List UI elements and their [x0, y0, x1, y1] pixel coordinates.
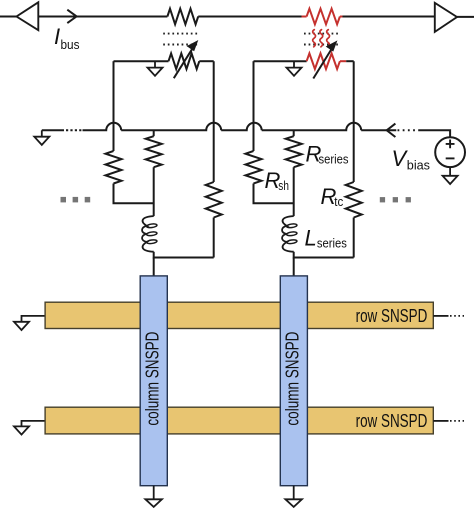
- ground (below V1): [443, 167, 458, 184]
- svg-text:L: L: [305, 225, 317, 250]
- ground (row 2): [14, 426, 29, 434]
- wire left branch (cell 1) through hop: [113, 61, 115, 151]
- resistor R2 (bus resistor, cell 2, heated): [302, 9, 343, 25]
- arrow of variable resistor RT2: [313, 41, 336, 78]
- wire middle branch top (cell 2): [293, 130, 295, 136]
- variable resistor RT2 (thermistor, cell 2, heated): [307, 53, 340, 69]
- amplifier U1 (left buffer): [17, 2, 39, 30]
- row SNSPD 2 bar: [45, 407, 433, 434]
- resistor R6 (R_sh, cell 2): [246, 151, 262, 184]
- wire row 1 right lead: [433, 315, 464, 317]
- wire bias line left solid: [42, 129, 64, 131]
- label column SNSPD 2: [282, 332, 303, 426]
- plus sign of V1: [446, 140, 455, 149]
- wire inductor to node (cell 1): [154, 252, 214, 258]
- wire node to column 2: [293, 258, 295, 277]
- wire heater loop top-right (cell 1): [199, 60, 213, 62]
- heat squiggle 1 (cell 2): [313, 30, 316, 47]
- current direction arrow toward bias line: [387, 124, 396, 137]
- heat squiggle 2 (cell 2): [320, 30, 323, 47]
- ground (row 1): [14, 322, 29, 330]
- heat squiggle 3 (cell 2): [327, 30, 330, 47]
- wire bus output stub: [457, 16, 474, 18]
- wire bus segment B: [198, 16, 301, 18]
- svg-text:sh: sh: [278, 179, 289, 193]
- ground (column 1): [145, 499, 162, 507]
- wire right branch (cell 2) through hop: [353, 61, 355, 182]
- ground (heater, cell 2): [287, 61, 302, 76]
- wire bias line segment, hop over node at 254.2: [221, 123, 262, 131]
- svg-text:I: I: [54, 24, 60, 49]
- ellipsis (more cells, left): [61, 197, 91, 203]
- wire bias line segment, hop over node at 353.7: [262, 123, 362, 130]
- wire column 2 bottom stub: [293, 486, 295, 500]
- column SNSPD 1 bar: [140, 276, 167, 486]
- wire middle branch (cell 1): [153, 167, 155, 216]
- resistor R3 (shunt, cell 1): [106, 151, 122, 184]
- wire bus segment A: [38, 16, 167, 18]
- resistor R5 (thermally-coupled, cell 1): [206, 182, 222, 218]
- column SNSPD 2 bar: [280, 276, 307, 486]
- svg-text:series: series: [317, 236, 347, 250]
- wire bus segment C: [343, 16, 435, 18]
- wire heater loop top-left (cell 2): [254, 60, 307, 62]
- wire row 2 left lead: [22, 421, 46, 427]
- wire node to column 1: [153, 258, 155, 277]
- current direction arrow on bus: [67, 10, 76, 23]
- svg-text:row SNSPD: row SNSPD: [356, 410, 428, 431]
- svg-text:column SNSPD: column SNSPD: [282, 332, 303, 426]
- svg-text:row SNSPD: row SNSPD: [356, 305, 428, 326]
- label R_series: [306, 141, 349, 166]
- svg-text:series: series: [319, 152, 349, 166]
- wire bias line right solid: [361, 129, 396, 131]
- arrow of variable resistor RT1: [174, 41, 198, 78]
- label I_bus: [54, 24, 80, 52]
- wire column 1 bottom stub: [153, 486, 155, 500]
- wire bias line segment, hop over node at 213.7: [121, 123, 221, 130]
- svg-text:bias: bias: [407, 159, 430, 173]
- ground (bias line, left end): [34, 130, 49, 145]
- svg-text:bus: bus: [61, 38, 80, 52]
- wire bias line to source: [418, 130, 450, 137]
- resistor R1 (bus resistor, cell 1): [167, 9, 198, 25]
- amplifier U2 (right buffer): [435, 3, 457, 32]
- voltage source V1 circle: [435, 137, 465, 167]
- wire middle branch top (cell 1): [153, 130, 155, 136]
- wire heater loop top-right (cell 2): [340, 60, 354, 62]
- wire left branch (cell 2) through hop: [253, 61, 255, 151]
- inductor L2 (L_series, cell 2): [282, 216, 297, 252]
- resistor R7 (R_series, cell 2): [286, 136, 302, 167]
- variable resistor RT1 (thermistor, cell 1): [169, 53, 200, 69]
- wire left branch bottom (cell 1): [114, 184, 154, 204]
- label V_bias: [392, 146, 431, 172]
- label L_series: [305, 225, 347, 250]
- wire bias line continuation dots: [398, 129, 419, 131]
- row SNSPD 1 bar: [45, 302, 433, 328]
- label row SNSPD 2: [356, 410, 428, 431]
- wire right branch bottom (cell 1): [213, 218, 215, 258]
- label column SNSPD 1: [142, 332, 163, 426]
- wire right branch bottom (cell 2): [353, 218, 355, 258]
- thermal link dotted lines (cell 1): [163, 34, 199, 45]
- label R_sh: [265, 168, 289, 193]
- wire heater loop top-left (cell 1): [114, 60, 169, 62]
- ground (heater, cell 1): [148, 61, 163, 76]
- resistor R4 (series, cell 1): [146, 136, 162, 167]
- wire row 2 right lead: [433, 420, 464, 422]
- thermal link dotted lines (cell 2): [304, 34, 338, 45]
- ground (column 2): [285, 499, 302, 507]
- wire inductor to node (cell 2): [294, 252, 354, 258]
- label R_tc: [321, 184, 344, 209]
- resistor R8 (R_tc, cell 2): [346, 182, 362, 218]
- inductor L1 (series, cell 1): [142, 216, 157, 252]
- wire right branch (cell 1) through hop: [213, 61, 215, 182]
- wire left branch bottom (cell 2): [254, 184, 294, 204]
- wire row 1 left lead: [22, 316, 46, 322]
- label row SNSPD 1: [356, 305, 428, 326]
- wire bias line continuation dashes: [66, 129, 82, 131]
- wire bias line with hop over node at 113.7: [83, 123, 122, 130]
- svg-text:column SNSPD: column SNSPD: [142, 332, 163, 426]
- ellipsis (more cells, right): [380, 197, 411, 202]
- minus sign of V1: [446, 157, 455, 159]
- wire bus input stub: [0, 16, 17, 18]
- wire middle branch (cell 2): [293, 167, 295, 216]
- svg-text:tc: tc: [334, 195, 343, 209]
